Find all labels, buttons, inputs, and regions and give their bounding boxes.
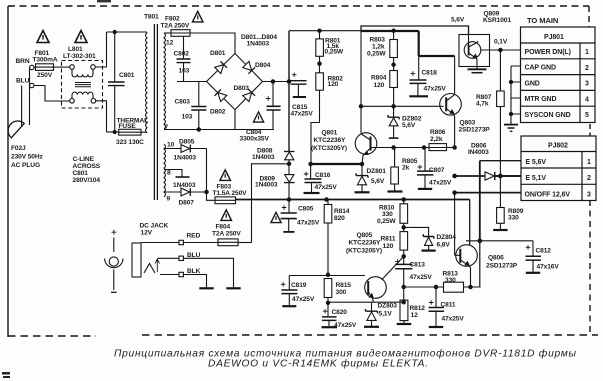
ground DZ801 [355, 191, 370, 193]
svg-text:R812: R812 [410, 305, 426, 312]
thermal fuse [107, 131, 119, 133]
svg-text:3300x35V: 3300x35V [240, 136, 270, 143]
diode D806 on E5.1V line [455, 175, 485, 177]
resistor R810 [403, 200, 405, 204]
Q805 base line [289, 275, 365, 277]
svg-text:12: 12 [411, 312, 419, 319]
node wire to fuse F803 [207, 149, 216, 201]
warning triangle F801 [37, 31, 49, 43]
svg-text:AC PLUG: AC PLUG [11, 162, 40, 169]
svg-text:T801: T801 [144, 14, 159, 21]
capacitor C818 [418, 56, 420, 80]
svg-text:LT-302-301: LT-302-301 [63, 53, 96, 60]
connector text PJ801 [525, 16, 592, 199]
svg-text:DZ803: DZ803 [378, 303, 398, 310]
bus to Q806 collector [469, 200, 471, 246]
BLK wire [160, 274, 179, 276]
bridge rectifier diamond [207, 54, 263, 110]
svg-text:E 5,6V: E 5,6V [526, 159, 547, 166]
svg-text:330: 330 [382, 211, 393, 218]
zener DZ803 [371, 302, 373, 310]
svg-text:D804: D804 [255, 62, 271, 69]
svg-text:BLU: BLU [187, 252, 201, 259]
svg-text:R803: R803 [370, 37, 386, 44]
fuse F801 [36, 64, 54, 71]
bridge diode D803 [243, 93, 252, 102]
svg-text:330: 330 [508, 215, 519, 222]
warning triangle F803 [220, 170, 231, 181]
E5.6V vertical feed [479, 161, 481, 241]
svg-text:C812: C812 [536, 248, 552, 255]
wire BRN to fuse [34, 67, 35, 69]
svg-text:R814: R814 [334, 208, 350, 215]
warning triangle F804 [221, 210, 232, 221]
svg-text:C803: C803 [175, 99, 191, 106]
svg-text:T1.5A 250V: T1.5A 250V [213, 190, 248, 197]
svg-text:47x25V: 47x25V [442, 316, 465, 323]
svg-text:47x16V: 47x16V [537, 264, 560, 271]
capacitor C805 [288, 200, 290, 213]
filter core lines [75, 83, 91, 87]
svg-text:D803: D803 [234, 85, 250, 92]
svg-text:1N4003: 1N4003 [247, 41, 270, 48]
bridge output wire to node [263, 81, 290, 83]
svg-text:E 5,1V: E 5,1V [526, 175, 547, 182]
svg-text:120: 120 [374, 82, 385, 89]
ground Q809 [468, 68, 487, 70]
border right dashed [588, 6, 590, 27]
resistor R801 [319, 31, 321, 39]
zener DZ801 [361, 164, 363, 175]
svg-text:F02J: F02J [11, 145, 26, 152]
filter upper coil [72, 69, 93, 74]
capacitor C807 [424, 148, 426, 171]
svg-text:47x25V: 47x25V [297, 220, 320, 227]
wire BLU [30, 83, 34, 87]
collector line to C812 [466, 240, 533, 242]
svg-text:T2A 250V: T2A 250V [212, 231, 241, 238]
svg-text:(KTC3205Y): (KTC3205Y) [346, 248, 382, 255]
svg-text:47x25V: 47x25V [292, 296, 315, 303]
svg-text:5,6V: 5,6V [402, 122, 416, 129]
border bottom dashed [8, 335, 96, 337]
svg-text:5,1V: 5,1V [379, 311, 393, 318]
svg-text:TO MAIN: TO MAIN [527, 16, 558, 25]
svg-text:4: 4 [585, 96, 589, 103]
svg-text:KSR1001: KSR1001 [483, 17, 511, 24]
svg-text:KTC2236Y: KTC2236Y [349, 240, 382, 247]
svg-text:250V: 250V [37, 72, 53, 79]
svg-text:DC JACK: DC JACK [140, 223, 169, 230]
svg-text:3: 3 [587, 192, 591, 199]
Q806 base feed from ON/OFF [454, 193, 456, 256]
5.6V top rail [361, 26, 469, 35]
RED wire [141, 242, 179, 244]
bridge left vertex wire [177, 81, 207, 83]
svg-text:Q803: Q803 [460, 120, 476, 127]
scan mark top edge [97, 0, 111, 2]
svg-text:280V/104: 280V/104 [73, 177, 101, 184]
svg-text:D802: D802 [210, 109, 226, 116]
svg-text:Q806: Q806 [488, 255, 504, 262]
filter output wires [96, 32, 107, 132]
svg-text:C818: C818 [422, 70, 438, 77]
svg-text:D807: D807 [179, 200, 195, 207]
svg-text:C819: C819 [291, 282, 307, 289]
bridge diode D804 [243, 61, 252, 70]
ground BLU [226, 287, 240, 289]
transformer secondary upper winding [164, 33, 166, 129]
svg-text:1: 1 [587, 159, 591, 166]
svg-text:12V: 12V [141, 230, 153, 237]
transistor Q809 in box [459, 35, 490, 67]
svg-text:C801: C801 [119, 72, 135, 79]
svg-text:103: 103 [182, 114, 193, 121]
svg-text:MTR GND: MTR GND [525, 96, 557, 103]
resistor R815 [324, 279, 332, 298]
svg-text:DZ801: DZ801 [367, 168, 387, 175]
svg-text:2k: 2k [402, 165, 410, 172]
border left solid [7, 6, 9, 337]
svg-text:330: 330 [445, 277, 456, 284]
svg-text:BRN: BRN [16, 58, 30, 65]
bridge diode D801 [215, 65, 224, 74]
Q801 base line to Q803 [361, 105, 439, 107]
warning triangle C804 [253, 112, 263, 122]
switch contact [144, 264, 155, 274]
svg-text:7: 7 [165, 124, 169, 131]
pin 8 tap wire [164, 170, 182, 177]
svg-text:C811: C811 [441, 302, 456, 309]
svg-text:300: 300 [336, 289, 347, 296]
Q801 collector line [360, 31, 362, 133]
svg-text:SYSCON GND: SYSCON GND [525, 112, 571, 119]
svg-text:2SD1273P: 2SD1273P [459, 127, 491, 134]
svg-text:DZ804: DZ804 [437, 234, 457, 241]
svg-text:120: 120 [383, 243, 394, 250]
svg-text:IN4003: IN4003 [468, 149, 489, 156]
text labels left section [11, 14, 320, 276]
transformer secondary lower winding [164, 144, 166, 197]
resistor R804 [390, 71, 398, 88]
diode D808 [284, 151, 295, 153]
svg-text:GND: GND [525, 80, 540, 87]
bus junction dots [325, 198, 328, 201]
svg-text:323 130C: 323 130C [116, 139, 144, 146]
capacitor C815 [289, 80, 291, 83]
svg-text:RED: RED [187, 233, 201, 240]
warning triangle L801 [75, 31, 87, 43]
svg-text:C801: C801 [73, 170, 89, 177]
svg-text:C816: C816 [315, 172, 331, 179]
resistor R814 [327, 200, 329, 205]
svg-text:KTC2236Y: KTC2236Y [314, 137, 347, 144]
svg-text:T300mA: T300mA [33, 57, 58, 64]
svg-text:C820: C820 [332, 309, 348, 316]
svg-text:Q805: Q805 [357, 232, 373, 239]
transformer T801 primary winding [146, 33, 148, 133]
transistor Q801 [355, 133, 377, 155]
capacitor C811 [435, 287, 437, 307]
warning triangle C805 [271, 212, 281, 222]
svg-text:1,2k: 1,2k [372, 44, 385, 51]
diode D809 [285, 175, 294, 183]
filter lower coil [72, 92, 93, 94]
Q805 collector diagonal [382, 256, 404, 280]
svg-text:1: 1 [585, 49, 589, 56]
svg-text:47x25V: 47x25V [410, 274, 433, 281]
svg-text:R815: R815 [336, 282, 352, 289]
svg-text:8: 8 [167, 170, 171, 177]
BLU wire [157, 257, 179, 259]
svg-text:D801: D801 [210, 50, 226, 57]
capacitor C804 [272, 82, 274, 107]
svg-text:ACROSS: ACROSS [73, 163, 101, 170]
svg-text:120: 120 [328, 81, 339, 88]
svg-text:C-LINE: C-LINE [73, 156, 95, 163]
text labels lower section [291, 205, 559, 330]
svg-text:1N4003: 1N4003 [173, 182, 196, 189]
fuse F804 [218, 239, 238, 246]
wires into PJ802 redrawn over box [455, 161, 521, 193]
svg-text:(KTC3205Y): (KTC3205Y) [311, 145, 347, 152]
fuse F803 [215, 197, 236, 204]
resistor R811 [400, 232, 408, 251]
zener DZ802 [393, 106, 395, 117]
resistor R802 [319, 64, 321, 73]
svg-text:1N4003: 1N4003 [252, 154, 275, 161]
svg-text:F802: F802 [165, 16, 180, 23]
top rail from bridge node [289, 30, 361, 32]
svg-text:3: 3 [585, 81, 589, 88]
svg-text:47x25V: 47x25V [429, 180, 452, 187]
svg-text:C805: C805 [298, 206, 314, 213]
svg-text:C807: C807 [429, 167, 445, 174]
text labels middle section [311, 11, 511, 192]
Q801 emitter rail [311, 163, 362, 165]
capacitor C819 [288, 276, 290, 290]
capacitor C801 [114, 32, 116, 82]
bridge diode D802 [218, 93, 227, 102]
top wire to C801 and primary [107, 31, 148, 33]
svg-text:1N4003: 1N4003 [255, 182, 278, 189]
svg-text:BLU: BLU [16, 78, 30, 85]
svg-text:103: 103 [179, 68, 190, 75]
DC jack connector [132, 243, 141, 277]
filter terminals [70, 65, 75, 70]
svg-text:1N4003: 1N4003 [174, 155, 197, 162]
svg-text:12: 12 [166, 40, 174, 47]
svg-text:FUSE: FUSE [119, 123, 137, 130]
svg-text:F804: F804 [216, 224, 231, 231]
ON/OFF wire [455, 192, 521, 194]
svg-text:DAEWOO и VC-R14EMK фирмы ELEKT: DAEWOO и VC-R14EMK фирмы ELEKTA. [208, 358, 428, 370]
resistor R807 [499, 50, 501, 91]
svg-text:6,8V: 6,8V [437, 242, 451, 249]
svg-text:R811: R811 [381, 236, 396, 243]
svg-text:820: 820 [334, 215, 345, 222]
wire 12V input to D808/D809 node [252, 164, 290, 243]
capacitor C816 [310, 164, 312, 179]
svg-text:47x25V: 47x25V [334, 322, 357, 329]
capacitor C802 [183, 36, 185, 59]
svg-text:47x25V: 47x25V [424, 86, 447, 93]
pin 12 wire and fuse F802 [164, 32, 171, 34]
svg-text:5: 5 [585, 112, 589, 119]
R813 line [404, 286, 481, 288]
svg-text:230V 50Hz: 230V 50Hz [11, 154, 44, 161]
resistor R803 [393, 31, 395, 40]
svg-text:5,6V: 5,6V [451, 17, 465, 24]
DC jack symbol [112, 230, 117, 235]
svg-text:47x25V: 47x25V [315, 184, 338, 191]
svg-text:C813: C813 [410, 262, 426, 269]
svg-text:ON/OFF 12,6V: ON/OFF 12,6V [525, 191, 571, 198]
scan mark bottom-left [2, 372, 10, 378]
connector PJ802 box [521, 136, 596, 201]
border top dashed [8, 5, 589, 7]
capacitor C812 [532, 241, 534, 256]
svg-text:0,1V: 0,1V [494, 39, 508, 46]
svg-text:D805: D805 [179, 139, 195, 146]
main vertical node x289 [288, 31, 290, 152]
svg-text:Q801: Q801 [322, 130, 338, 137]
emitter line lower [328, 301, 404, 303]
svg-text:5,6V: 5,6V [371, 178, 385, 185]
svg-text:C802: C802 [174, 51, 190, 58]
thick raw rail segment [361, 30, 419, 32]
svg-text:2SD1273P: 2SD1273P [486, 263, 518, 270]
svg-text:10: 10 [167, 142, 175, 149]
svg-text:R804: R804 [371, 75, 387, 82]
svg-text:R806: R806 [430, 129, 446, 136]
PJ801 ground column [511, 66, 521, 124]
svg-text:4,7k: 4,7k [476, 101, 489, 108]
pin 7 wire [164, 129, 235, 131]
resistor R813 horizontal [444, 282, 464, 292]
svg-text:POWER DN(L): POWER DN(L) [525, 49, 571, 56]
Q801 base wire right [371, 147, 455, 149]
transistor Q803 [454, 56, 456, 94]
diode D807 [164, 191, 181, 193]
svg-text:0,25W: 0,25W [377, 218, 396, 225]
svg-text:47x25V: 47x25V [291, 111, 314, 118]
svg-text:L801: L801 [68, 46, 83, 53]
ground BLK [199, 287, 213, 289]
svg-text:9: 9 [167, 196, 171, 203]
warning triangle F802 [192, 11, 203, 22]
svg-text:PJ802: PJ802 [548, 143, 568, 150]
svg-text:CAP GND: CAP GND [525, 65, 556, 72]
svg-text:2: 2 [585, 65, 589, 72]
svg-text:2: 2 [587, 175, 591, 182]
svg-text:0,25W: 0,25W [325, 49, 344, 56]
svg-text:BLK: BLK [187, 268, 201, 275]
capacitor C820 [327, 303, 329, 317]
svg-text:2,2k: 2,2k [430, 136, 443, 143]
transformer T801 core [154, 24, 157, 200]
zener DZ804 [404, 227, 429, 236]
transistor Q805 [365, 277, 387, 299]
diode D805 [164, 148, 181, 150]
bridge bottom return wire [234, 110, 236, 130]
svg-text:PJ801: PJ801 [544, 34, 564, 41]
AC plug F02J [8, 121, 24, 138]
resistor R812 [402, 301, 405, 304]
capacitor C803 [198, 82, 200, 107]
transistor Q806 [456, 245, 478, 267]
svg-text:0,25W: 0,25W [367, 51, 386, 58]
line filter L801 dashed box [62, 61, 103, 109]
connector PJ801 box [521, 27, 597, 201]
svg-text:T2A 250V: T2A 250V [161, 23, 190, 30]
capacitor C813 [395, 264, 412, 268]
resistor R809 [499, 176, 501, 208]
resistor R805 [394, 148, 396, 168]
lower common bus [236, 199, 470, 201]
E5.6V wire [480, 160, 521, 162]
D806 junction node [499, 174, 503, 178]
resistor R806 horizontal [429, 144, 447, 151]
